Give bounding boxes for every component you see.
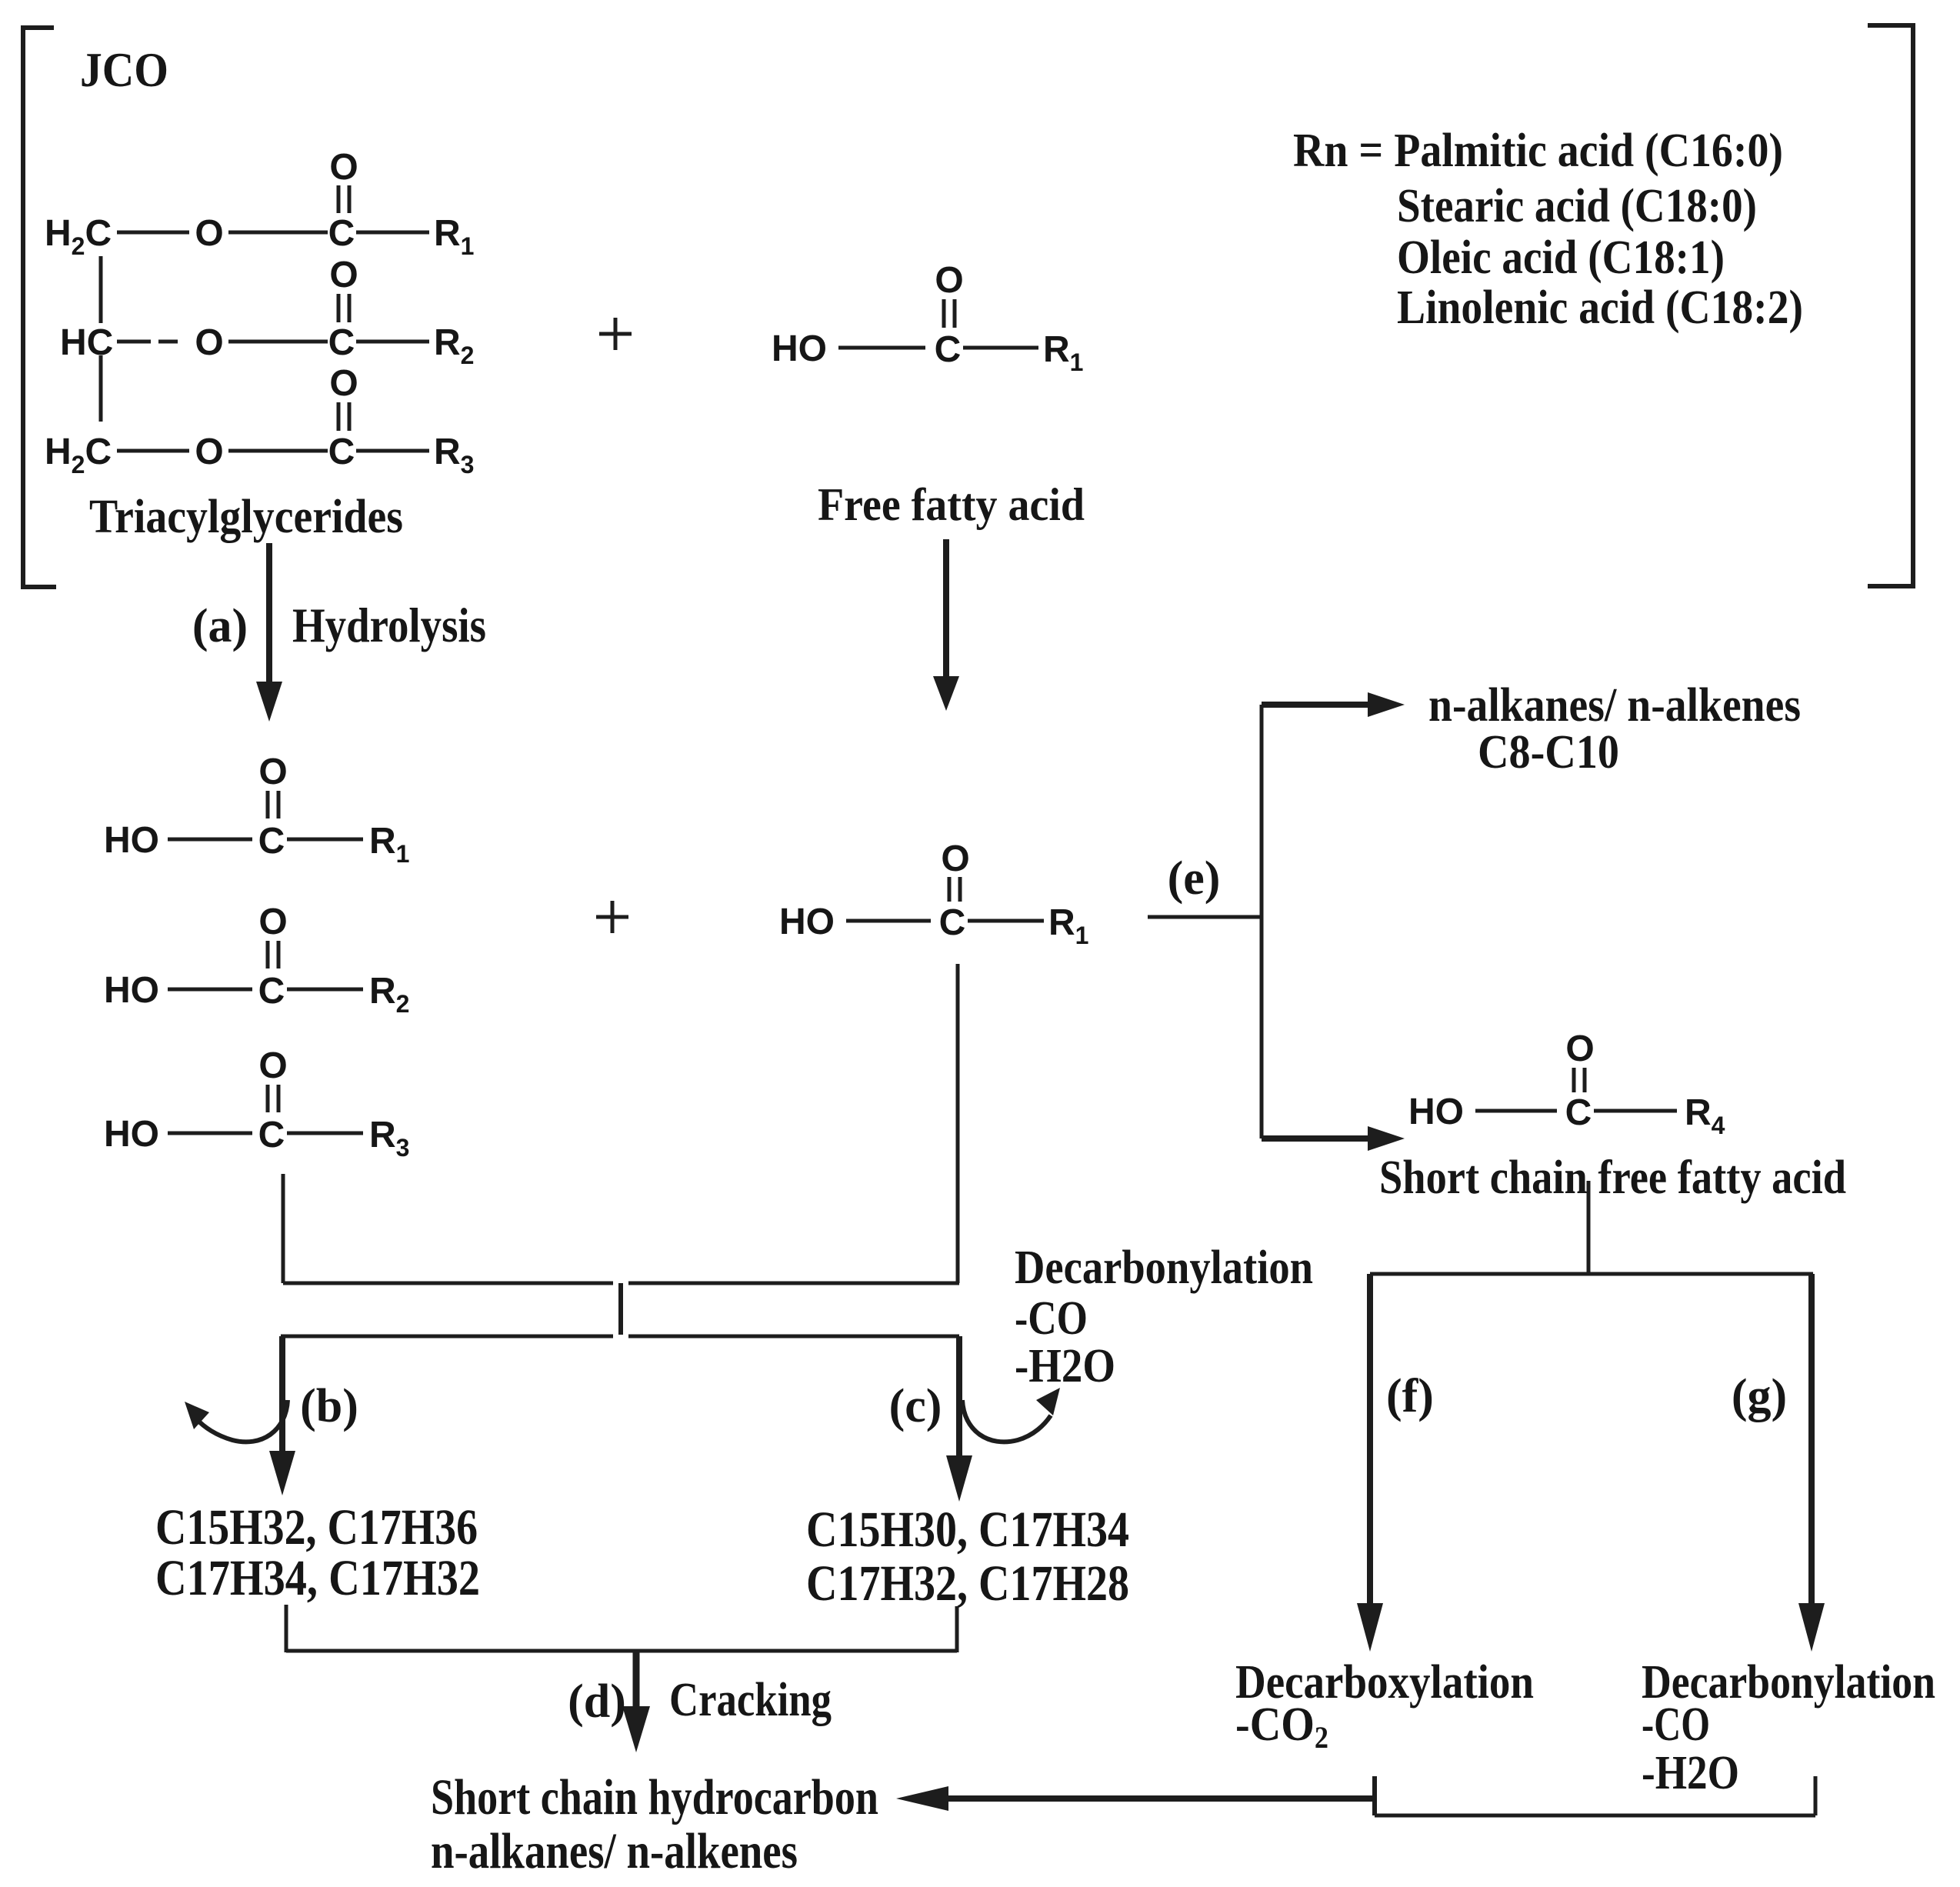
svg-text:n-alkanes/ n-alkenes: n-alkanes/ n-alkenes bbox=[431, 1823, 798, 1879]
svg-text:O: O bbox=[941, 838, 969, 879]
free fatty acid middle HO-C(=O)-R1 bbox=[779, 838, 1088, 949]
wire (e) bottom branch arrow bbox=[1262, 1135, 1369, 1142]
free fatty acid structure HO-C(=O)-R1 top bbox=[772, 260, 1083, 376]
arrow (c) down bbox=[956, 1336, 962, 1459]
svg-text:(d): (d) bbox=[568, 1675, 626, 1728]
svg-text:C8-C10: C8-C10 bbox=[1478, 726, 1619, 778]
svg-text:C: C bbox=[258, 821, 285, 862]
svg-text:C17H32, C17H28: C17H32, C17H28 bbox=[806, 1555, 1129, 1612]
svg-text:O: O bbox=[1565, 1029, 1594, 1069]
svg-text:HO: HO bbox=[1408, 1092, 1464, 1132]
wire (e) horizontal from R1 bbox=[1148, 915, 1262, 919]
svg-text:HO: HO bbox=[104, 970, 159, 1011]
svg-text:C: C bbox=[939, 902, 966, 943]
svg-text:HO: HO bbox=[772, 328, 827, 369]
wire double bond row2 bbox=[337, 294, 341, 322]
svg-text:O: O bbox=[258, 1045, 287, 1086]
svg-text:O: O bbox=[935, 260, 963, 301]
svg-text:(a): (a) bbox=[192, 600, 248, 652]
wire double bond bbox=[942, 299, 946, 328]
wire bond C-R2 row2 bbox=[356, 340, 429, 344]
svg-text:JCO: JCO bbox=[80, 42, 168, 97]
svg-text:Rn = Palmitic acid (C16:0): Rn = Palmitic acid (C16:0) bbox=[1293, 125, 1783, 177]
svg-text:Oleic acid (C18:1): Oleic acid (C18:1) bbox=[1397, 232, 1725, 284]
arrow (d) down Cracking bbox=[633, 1651, 640, 1709]
wire bottom connector horizontal bbox=[1375, 1814, 1815, 1818]
svg-text:C: C bbox=[258, 1115, 285, 1155]
svg-text:-CO: -CO bbox=[1642, 1699, 1710, 1751]
svg-text:(f): (f) bbox=[1386, 1370, 1434, 1422]
svg-text:Stearic acid (C18:0): Stearic acid (C18:0) bbox=[1397, 180, 1757, 232]
svg-text:C: C bbox=[328, 432, 355, 472]
plus sign top bbox=[599, 332, 632, 336]
wire bond H2C-O row1 bbox=[117, 231, 189, 235]
wire left acids collector vertical bbox=[282, 1174, 285, 1283]
short chain fatty acid structure HO-C(=O)-R4 bbox=[1408, 1029, 1725, 1139]
triacylglyceride row 3 H2C-O-C(=O)-R3 bbox=[45, 363, 474, 478]
svg-text:C17H34, C17H32: C17H34, C17H32 bbox=[155, 1550, 480, 1606]
arrow left into short chain hydrocarbon bbox=[948, 1795, 1375, 1802]
wire upper rail bbox=[283, 1282, 613, 1285]
wire bond C-R1 row1 bbox=[356, 231, 429, 235]
wire (e) top branch arrow bbox=[1262, 702, 1369, 708]
wire double bond row1 bbox=[337, 185, 341, 213]
wire bond O-C row1 bbox=[228, 231, 328, 235]
arrow (f) down bbox=[1367, 1274, 1373, 1606]
left bracket bbox=[23, 28, 56, 587]
wire bond HO-C bbox=[838, 346, 925, 350]
svg-text:C: C bbox=[258, 971, 285, 1012]
arrow (a) Hydrolysis bbox=[266, 543, 272, 685]
svg-text:-CO2: -CO2 bbox=[1235, 1699, 1328, 1755]
wire f/g connector horizontal bbox=[1370, 1272, 1813, 1276]
triacylglyceride structure: row 1 H2C-O-C(=O)-R1 bbox=[45, 147, 474, 260]
svg-text:C15H30, C17H34: C15H30, C17H34 bbox=[806, 1502, 1129, 1558]
wire glycerol backbone verticals bbox=[99, 256, 103, 323]
wire bond O-C row2 bbox=[228, 340, 328, 344]
wire bond H2C-O row3 bbox=[117, 449, 189, 453]
svg-text:Decarbonylation: Decarbonylation bbox=[1015, 1242, 1313, 1294]
svg-text:n-alkanes/ n-alkenes: n-alkanes/ n-alkenes bbox=[1428, 679, 1801, 732]
svg-text:O: O bbox=[258, 752, 287, 792]
curved arrow c bbox=[962, 1400, 1051, 1442]
svg-text:-CO: -CO bbox=[1015, 1292, 1088, 1345]
svg-text:Cracking: Cracking bbox=[669, 1674, 832, 1726]
wire (e) vertical branch bbox=[1260, 705, 1264, 1139]
svg-text:HO: HO bbox=[779, 902, 835, 942]
wire right product tick bbox=[955, 1606, 959, 1652]
svg-text:(b): (b) bbox=[300, 1380, 358, 1432]
svg-text:Short chain free fatty acid: Short chain free fatty acid bbox=[1379, 1152, 1846, 1204]
svg-text:HO: HO bbox=[104, 1114, 159, 1155]
triacylglyceride row 2 HC-O-C(=O)-R2 bbox=[60, 255, 474, 369]
wire double bond row3 bbox=[337, 402, 341, 431]
wire bottom rail bbox=[286, 1649, 957, 1653]
svg-text:Triacylglycerides: Triacylglycerides bbox=[89, 491, 403, 543]
svg-text:(e): (e) bbox=[1168, 852, 1221, 905]
arrow down from Free fatty acid bbox=[943, 539, 949, 678]
wire bond C-R1 bbox=[963, 346, 1038, 350]
wire from middle FFA carbon down to junction bbox=[956, 964, 960, 1283]
wire bond C-R3 row3 bbox=[356, 449, 429, 453]
wire central junction tick bbox=[618, 1283, 623, 1335]
svg-text:(g): (g) bbox=[1732, 1370, 1787, 1422]
arrow (g) down bbox=[1808, 1274, 1815, 1606]
svg-text:HC: HC bbox=[60, 322, 113, 363]
svg-text:O: O bbox=[329, 255, 358, 295]
arrow (b) down bbox=[279, 1336, 285, 1454]
right bracket bbox=[1868, 25, 1913, 586]
plus sign middle bbox=[596, 915, 628, 919]
svg-text:Hydrolysis: Hydrolysis bbox=[292, 598, 486, 652]
wire bottom connector right tick bbox=[1814, 1776, 1818, 1815]
fatty acid product 1 HO-C(=O)-R1 bbox=[104, 752, 409, 868]
svg-text:O: O bbox=[329, 147, 358, 188]
wire lower rail bbox=[281, 1335, 613, 1339]
svg-text:O: O bbox=[195, 213, 223, 254]
svg-text:Linolenic acid (C18:2): Linolenic acid (C18:2) bbox=[1397, 282, 1803, 334]
svg-text:Free fatty acid: Free fatty acid bbox=[818, 479, 1085, 530]
svg-text:O: O bbox=[258, 902, 287, 942]
svg-text:-H2O: -H2O bbox=[1642, 1747, 1739, 1799]
wire bottom connector left tick bbox=[1372, 1776, 1377, 1815]
svg-text:O: O bbox=[329, 363, 358, 404]
fatty acid product 3 HO-C(=O)-R3 bbox=[104, 1045, 409, 1162]
wire bond O-C row3 bbox=[228, 449, 328, 453]
wire left product tick down bbox=[285, 1605, 288, 1652]
wire from R4 carbon down through label bbox=[1587, 1181, 1591, 1272]
svg-text:Short chain hydrocarbon: Short chain hydrocarbon bbox=[431, 1769, 878, 1825]
svg-text:C: C bbox=[328, 213, 355, 254]
svg-text:O: O bbox=[195, 432, 223, 472]
svg-text:C15H32, C17H36: C15H32, C17H36 bbox=[155, 1499, 478, 1555]
svg-text:C: C bbox=[935, 329, 962, 370]
wire dash bonds row2 bbox=[117, 340, 151, 344]
curved arrow b bbox=[197, 1400, 288, 1442]
svg-text:C: C bbox=[328, 322, 355, 363]
svg-text:C: C bbox=[1565, 1092, 1592, 1133]
svg-text:(c): (c) bbox=[889, 1380, 942, 1432]
svg-text:HO: HO bbox=[104, 820, 159, 861]
svg-text:O: O bbox=[195, 322, 223, 363]
svg-text:-H2O: -H2O bbox=[1015, 1340, 1115, 1392]
fatty acid product 2 HO-C(=O)-R2 bbox=[104, 902, 409, 1018]
